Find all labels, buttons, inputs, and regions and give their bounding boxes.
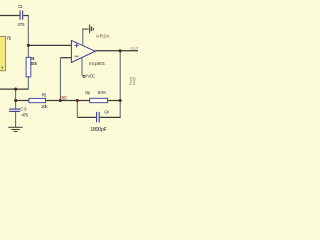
svg-text:AR2A: AR2A — [96, 33, 110, 39]
svg-text:+VCC: +VCC — [85, 74, 96, 79]
svg-text:22: 22 — [129, 81, 136, 86]
svg-text:R4: R4 — [85, 90, 90, 96]
svg-text:C3: C3 — [20, 106, 27, 112]
svg-text:REF: REF — [60, 96, 67, 101]
svg-text:475: 475 — [17, 22, 25, 28]
svg-text:10k: 10k — [41, 104, 48, 110]
svg-text:90K: 90K — [98, 90, 108, 96]
svg-text:R2: R2 — [42, 93, 47, 99]
svg-text:mcp601: mcp601 — [89, 61, 106, 67]
svg-text:C4: C4 — [104, 109, 109, 115]
svg-text:R1: R1 — [7, 36, 12, 42]
svg-text:100k: 100k — [30, 61, 38, 67]
svg-text:1800pF: 1800pF — [90, 127, 107, 133]
svg-text:475: 475 — [21, 112, 28, 118]
svg-text:C1: C1 — [18, 4, 23, 10]
svg-text:OUT: OUT — [130, 46, 138, 51]
